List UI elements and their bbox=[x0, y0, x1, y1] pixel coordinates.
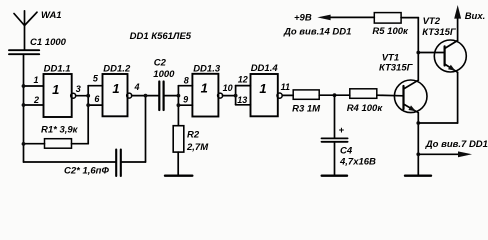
svg-text:Вих.: Вих. bbox=[465, 11, 486, 22]
svg-text:VT2: VT2 bbox=[423, 16, 441, 27]
output arrow Вих bbox=[454, 5, 485, 22]
resistor R2 bbox=[173, 126, 209, 176]
svg-text:+9В: +9В bbox=[294, 13, 312, 24]
svg-text:R1* 3,9к: R1* 3,9к bbox=[41, 124, 79, 135]
svg-text:До вив.14 DD1: До вив.14 DD1 bbox=[283, 27, 351, 38]
wire feedback vertical bbox=[145, 96, 147, 162]
transistor VT1 bbox=[379, 53, 427, 113]
op-amp U1: gate DD1.1 bbox=[44, 63, 76, 117]
wire left rail bbox=[23, 54, 25, 162]
svg-text:12: 12 bbox=[238, 74, 248, 84]
svg-text:DD1 К561ЛЕ5: DD1 К561ЛЕ5 bbox=[130, 31, 192, 42]
node R3-R4-C4 bbox=[333, 93, 337, 97]
svg-text:КТ315Г: КТ315Г bbox=[422, 27, 457, 38]
svg-text:2: 2 bbox=[33, 95, 39, 105]
svg-text:WA1: WA1 bbox=[41, 10, 62, 21]
wire VT1 emitter down bbox=[417, 113, 419, 176]
svg-text:КТ315Г: КТ315Г bbox=[379, 63, 414, 74]
pin 5 bbox=[88, 74, 102, 86]
node rail-pin1 bbox=[22, 84, 26, 88]
svg-text:4: 4 bbox=[133, 82, 139, 92]
svg-text:R4 100к: R4 100к bbox=[347, 103, 384, 114]
svg-text:R3 1M: R3 1M bbox=[292, 104, 321, 115]
node до вив7 bbox=[416, 152, 420, 156]
svg-text:9: 9 bbox=[183, 95, 188, 105]
pin 4 bbox=[132, 82, 159, 96]
svg-text:13: 13 bbox=[237, 95, 247, 105]
svg-text:11: 11 bbox=[281, 82, 290, 92]
op-amp U4: gate DD1.4 bbox=[251, 63, 283, 116]
svg-text:R2: R2 bbox=[187, 130, 200, 141]
ground VT1 bbox=[405, 174, 431, 176]
pin 11 bbox=[281, 82, 294, 95]
pin 2 bbox=[24, 95, 44, 105]
svg-text:10: 10 bbox=[223, 83, 233, 93]
op-amp U2: gate DD1.2 bbox=[103, 63, 132, 116]
antenna WA1 bbox=[14, 10, 62, 50]
pin 8 bbox=[178, 75, 192, 85]
svg-text:DD1.1: DD1.1 bbox=[44, 63, 71, 74]
node stub-main4 bbox=[234, 94, 238, 98]
capacitor C2* bbox=[64, 150, 146, 177]
svg-text:4,7х16В: 4,7х16В bbox=[339, 157, 376, 168]
svg-text:1: 1 bbox=[112, 81, 119, 96]
svg-text:1: 1 bbox=[52, 82, 59, 97]
svg-text:+: + bbox=[339, 125, 345, 136]
svg-text:До вив.7 DD1: До вив.7 DD1 bbox=[425, 139, 488, 150]
wire to VT2 base bbox=[418, 52, 444, 54]
resistor R1 bbox=[24, 124, 89, 148]
svg-text:1000: 1000 bbox=[153, 69, 175, 80]
svg-text:2,7М: 2,7М bbox=[186, 142, 209, 153]
node stub-pin6 bbox=[86, 103, 90, 107]
node stub-main3 bbox=[177, 94, 181, 98]
op-amp U3: gate DD1.3 bbox=[192, 63, 222, 116]
svg-text:1: 1 bbox=[33, 75, 38, 85]
svg-text:C2: C2 bbox=[154, 58, 167, 69]
node emitters join bbox=[416, 121, 420, 125]
svg-text:DD1.2: DD1.2 bbox=[103, 63, 131, 74]
wire VT2 collector to Вих bbox=[457, 17, 459, 41]
svg-text:C4: C4 bbox=[340, 146, 353, 157]
pin 10 bbox=[223, 83, 236, 96]
svg-text:C2* 1,6пФ: C2* 1,6пФ bbox=[64, 166, 109, 177]
node rail-R1 bbox=[22, 142, 26, 146]
pin 12 bbox=[236, 74, 251, 85]
output arrow До вив.7 DD1 bbox=[418, 139, 488, 157]
capacitor C1 bbox=[9, 37, 67, 54]
wire input stub DD1.3 bbox=[177, 86, 179, 126]
resistor R4 bbox=[335, 89, 404, 114]
node stub-main bbox=[86, 94, 90, 98]
pin 1 bbox=[24, 75, 44, 86]
capacitor C2 bbox=[153, 58, 178, 111]
node out2-feedback bbox=[144, 94, 148, 98]
ground C4 bbox=[322, 174, 347, 176]
wire bottom feedback left bbox=[24, 161, 116, 163]
resistor R3 bbox=[292, 90, 334, 115]
pin 13 bbox=[236, 95, 251, 105]
node rail-pin2 bbox=[22, 103, 26, 107]
svg-text:3: 3 bbox=[76, 84, 81, 94]
power +9В arrow bbox=[294, 13, 374, 24]
svg-text:8: 8 bbox=[184, 75, 189, 85]
pin 6 bbox=[88, 94, 102, 105]
svg-text:1: 1 bbox=[201, 81, 208, 96]
wire R5 to VT1 collector bbox=[417, 18, 419, 81]
svg-text:DD1.3: DD1.3 bbox=[193, 63, 221, 74]
pin 3 bbox=[76, 84, 89, 96]
node base VT2 bbox=[416, 51, 420, 55]
wire input stub DD1.4 bbox=[235, 86, 237, 105]
capacitor C4 bbox=[322, 95, 377, 175]
svg-text:R5 100к: R5 100к bbox=[372, 26, 409, 37]
wire VT2 emitter down-left bbox=[418, 72, 457, 123]
transistor VT2 bbox=[422, 16, 466, 72]
resistor R5 bbox=[372, 13, 418, 37]
pin 9 bbox=[178, 95, 192, 106]
node stub-pin9 bbox=[177, 103, 181, 107]
svg-text:1: 1 bbox=[259, 81, 266, 96]
svg-text:DD1.4: DD1.4 bbox=[251, 63, 279, 74]
svg-text:C1 1000: C1 1000 bbox=[30, 37, 67, 48]
wire input stub DD1.2 bbox=[87, 86, 89, 144]
ground R2 bbox=[165, 174, 192, 176]
